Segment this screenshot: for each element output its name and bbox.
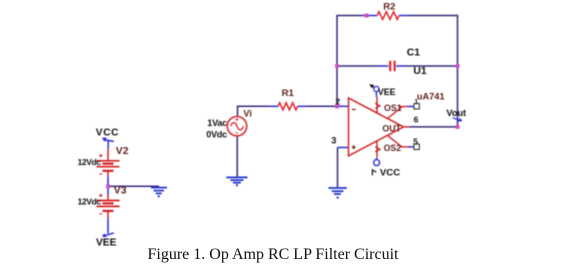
svg-text:OUT: OUT — [382, 123, 401, 133]
svg-text:12Vdc: 12Vdc — [77, 157, 101, 167]
svg-text:1Vac: 1Vac — [207, 118, 227, 128]
svg-text:R2: R2 — [383, 2, 395, 13]
svg-text:5: 5 — [413, 136, 418, 146]
svg-text:1: 1 — [415, 98, 419, 105]
svg-text:0Vdc: 0Vdc — [206, 129, 227, 139]
svg-text:6: 6 — [414, 115, 419, 125]
svg-text:U1: U1 — [413, 66, 427, 77]
svg-text:R1: R1 — [282, 88, 295, 99]
svg-text:OS1: OS1 — [384, 103, 402, 113]
svg-text:V3: V3 — [114, 185, 127, 196]
svg-text:VEE: VEE — [378, 87, 396, 97]
svg-text:VCC: VCC — [96, 128, 119, 139]
svg-text:VCC: VCC — [380, 168, 400, 179]
svg-text:Figure 1. Op Amp RC LP Filter: Figure 1. Op Amp RC LP Filter Circuit — [148, 246, 400, 263]
svg-text:Vi: Vi — [243, 109, 252, 119]
svg-text:V2: V2 — [116, 146, 129, 157]
svg-text:12Vdc: 12Vdc — [77, 197, 101, 207]
svg-text:OS2: OS2 — [384, 143, 402, 153]
svg-text:2: 2 — [335, 97, 340, 107]
svg-text:uA741: uA741 — [417, 92, 445, 102]
svg-text:C1: C1 — [407, 48, 421, 59]
svg-text:Vout: Vout — [446, 108, 466, 118]
svg-text:VEE: VEE — [96, 238, 117, 249]
svg-text:3: 3 — [331, 135, 336, 145]
